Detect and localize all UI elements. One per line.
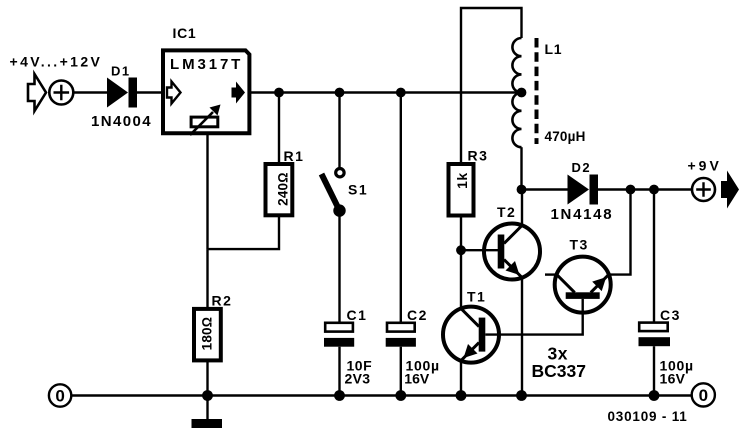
- resistor R1: [266, 164, 293, 215]
- svg-text:LM317T: LM317T: [170, 56, 243, 73]
- junction rail-C2: [396, 88, 406, 98]
- wire top feedback loop: [461, 8, 522, 164]
- node IC1 input arrow: [167, 82, 181, 104]
- wire S1 to C1: [338, 211, 340, 323]
- node +4V input plus terminal: [49, 81, 73, 105]
- junction D2 cathode-C3: [649, 185, 659, 195]
- svg-text:R3: R3: [468, 148, 489, 164]
- resistor R2: [194, 309, 221, 361]
- inductor L1 core: [535, 38, 539, 144]
- svg-text:IC1: IC1: [173, 25, 197, 41]
- svg-text:16V: 16V: [660, 371, 686, 387]
- junction rail-R1: [274, 88, 284, 98]
- junction rail-L1 tap: [517, 88, 527, 98]
- capacitor C3: [639, 323, 668, 332]
- diode D2: [568, 175, 590, 205]
- svg-text:R2: R2: [212, 293, 233, 309]
- wire D2 cathode to +9V: [598, 188, 692, 190]
- wire IC1 adj down: [206, 133, 208, 249]
- svg-text:+4V...+12V: +4V...+12V: [10, 54, 103, 70]
- node +9V output arrow: [721, 171, 739, 209]
- wire T1 base to T3 base: [485, 299, 582, 335]
- wire R2 to ground: [206, 396, 208, 420]
- junction ground-T1 emitter: [456, 390, 467, 401]
- wire R1 top: [278, 93, 280, 165]
- transistor T3: [555, 257, 611, 313]
- wire C3 top: [653, 190, 655, 323]
- svg-text:030109 - 11: 030109 - 11: [608, 409, 688, 424]
- junction rail-S1: [335, 88, 345, 98]
- wire R2 bottom: [206, 360, 208, 395]
- wire C3 bottom: [653, 346, 655, 395]
- junction L1-T2 collector-D2 anode: [517, 185, 527, 195]
- junction ground-T2 emitter: [516, 390, 527, 401]
- node +9V output plus terminal: [692, 178, 715, 201]
- svg-text:1k: 1k: [454, 172, 470, 189]
- wire D1 to IC1: [137, 91, 161, 93]
- ground rail wire: [72, 394, 692, 396]
- wire C1 bottom: [338, 347, 340, 396]
- wire T2 collector up: [521, 190, 523, 226]
- svg-text:C1: C1: [347, 307, 368, 323]
- wire R2 top: [206, 249, 208, 309]
- svg-text:0: 0: [55, 387, 64, 406]
- svg-text:C2: C2: [407, 307, 428, 323]
- wire D2 anode: [522, 188, 568, 190]
- capacitor C2: [387, 323, 415, 332]
- svg-text:BC337: BC337: [532, 361, 586, 381]
- wire R1 bottom to adj node: [208, 215, 280, 249]
- svg-text:16V: 16V: [404, 371, 430, 387]
- resistor R3: [449, 164, 474, 216]
- switch S1: [336, 169, 344, 177]
- svg-text:1N4148: 1N4148: [551, 206, 614, 223]
- wire T1 emitter down: [460, 361, 462, 396]
- node 0 terminal right: [692, 383, 715, 406]
- node +4V input terminal arrow: [28, 74, 46, 111]
- capacitor C1: [325, 323, 353, 332]
- wire T3 emitter to D2 node: [609, 190, 631, 275]
- junction D2 cathode-T3 emitter: [626, 185, 636, 195]
- transistor T2: [484, 224, 540, 280]
- svg-text:D1: D1: [111, 64, 131, 79]
- svg-text:T1: T1: [467, 289, 486, 305]
- wire base node to T1 collector: [460, 250, 462, 308]
- svg-text:0: 0: [699, 386, 708, 405]
- inductor L1 coil: [512, 38, 521, 147]
- svg-text:S1: S1: [348, 182, 368, 198]
- wire T2 emitter down: [521, 278, 523, 396]
- IC1 adjust symbol: [191, 117, 218, 127]
- wire input to D1: [73, 91, 107, 93]
- transistor T1: [443, 307, 499, 363]
- svg-text:T2: T2: [497, 204, 516, 220]
- junction ground-R2: [202, 390, 213, 401]
- wire IC1 output rail: [249, 91, 521, 93]
- svg-text:+9V: +9V: [688, 158, 722, 174]
- node IC1 output arrow: [232, 82, 246, 104]
- svg-text:D2: D2: [572, 160, 592, 175]
- wire C2 bottom: [400, 347, 402, 396]
- diode D1: [107, 78, 128, 108]
- svg-text:180Ω: 180Ω: [200, 317, 215, 351]
- junction ground-C2: [395, 390, 406, 401]
- ground: [192, 419, 223, 428]
- wire R3 bottom: [460, 216, 462, 251]
- node 0 terminal left: [49, 384, 71, 406]
- wire S1 top: [338, 93, 340, 168]
- junction ground-C3: [649, 390, 660, 401]
- svg-text:T3: T3: [570, 237, 589, 253]
- svg-text:R1: R1: [284, 148, 305, 164]
- svg-text:L1: L1: [545, 41, 563, 57]
- svg-text:1N4004: 1N4004: [91, 113, 152, 130]
- wire L1 bottom to D2 node: [520, 147, 522, 189]
- svg-text:240Ω: 240Ω: [276, 172, 291, 206]
- wire T3 collector stub: [545, 273, 557, 275]
- junction R3-T2 base-T1 collector: [456, 245, 466, 255]
- wire T2 base: [461, 249, 498, 251]
- svg-text:470µH: 470µH: [545, 129, 586, 144]
- wire C2 top: [400, 93, 402, 323]
- IC U1 : voltage regulator IC1 LM317T box: [163, 50, 249, 133]
- junction ground-C1: [334, 390, 345, 401]
- svg-text:2V3: 2V3: [345, 371, 371, 387]
- svg-text:C3: C3: [660, 307, 681, 323]
